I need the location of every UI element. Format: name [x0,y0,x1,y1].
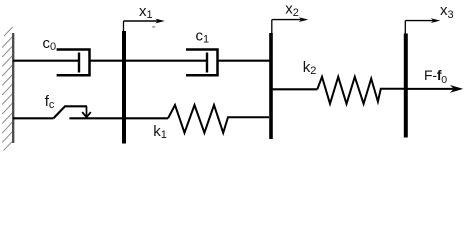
friction element fc slanted contact [54,106,88,118]
wire node x1 to damper C1 piston rod [124,60,207,62]
wire wall to damper C0 piston rod [13,60,79,62]
spring K2 [317,77,404,104]
damper C0 piston [78,53,80,73]
wall hatching [2,27,12,151]
force arrow F-f0 [406,85,463,93]
wire wall to friction element [13,117,54,119]
wire friction element to node x1 [69,117,124,119]
wire node x2 to spring K2 [271,88,317,90]
damper C1 piston [206,53,208,73]
wire damper C1 to node x2 [218,60,272,62]
damper C1 cylinder [186,50,218,76]
spring K1 [168,105,269,133]
coordinate arrow x3 [405,18,440,34]
wire node x1 to spring K1 [124,117,168,119]
damper C0 cylinder [57,50,90,76]
friction element arrow [82,106,91,117]
coordinate arrow x2 [272,17,309,33]
wall [12,33,14,143]
node x2 mass bar [269,33,273,139]
coordinate arrow x1 [124,19,165,32]
node x3 mass bar [404,34,408,138]
node x1 mass bar [122,31,126,144]
wire damper C0 to node x1 [90,60,125,62]
artifact dot under x1 arrow [152,26,155,28]
